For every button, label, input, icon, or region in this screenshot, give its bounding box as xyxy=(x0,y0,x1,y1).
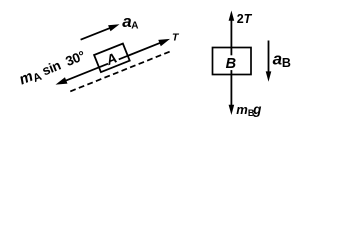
svg-text:A: A xyxy=(131,20,138,31)
svg-text:mA sin 30°: mA sin 30° xyxy=(17,47,88,90)
white halo behind letter A xyxy=(105,51,120,66)
block A rectangle xyxy=(94,44,130,73)
dashed incline surface line xyxy=(70,51,170,91)
svg-text:B: B xyxy=(226,56,236,72)
svg-text:B: B xyxy=(282,56,291,70)
block B rectangle xyxy=(213,48,252,75)
wire stub through block xyxy=(99,56,128,68)
arrowhead T (up-right tip) xyxy=(158,36,171,47)
svg-text:a: a xyxy=(273,49,282,68)
arrowhead 2T (up) xyxy=(229,11,235,21)
svg-text:2T: 2T xyxy=(237,12,253,26)
rope/weight line through block B xyxy=(230,19,232,107)
svg-text:mBg: mBg xyxy=(236,102,262,118)
acceleration arrow a_A xyxy=(81,27,112,39)
incline rotated group xyxy=(17,15,175,107)
wire: main incline line through block A xyxy=(62,41,163,81)
white halo behind letter B xyxy=(225,55,237,70)
arrowhead m_A sin 30 (down-left) xyxy=(54,77,67,88)
acceleration arrow a_B xyxy=(268,41,270,74)
arrowhead m_B g (down) xyxy=(229,105,235,115)
svg-text:T: T xyxy=(172,31,180,43)
